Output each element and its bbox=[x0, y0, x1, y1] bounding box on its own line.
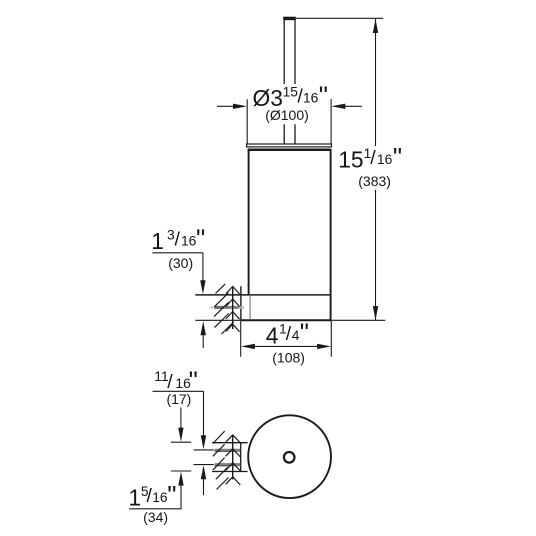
dim 30 leader bbox=[152, 252, 203, 254]
dim 15 1/16 top arrow (up) bbox=[373, 19, 378, 33]
wall hatch long diagonals (bottom view) bbox=[213, 431, 229, 489]
svg-text:": " bbox=[319, 80, 328, 110]
dim Ø100 left arrow bbox=[217, 105, 240, 107]
svg-text:": " bbox=[393, 142, 402, 172]
top extension line for height dim bbox=[296, 17, 383, 19]
screw (side view, gray) bbox=[211, 307, 213, 309]
svg-text:4: 4 bbox=[266, 322, 279, 348]
wall plate left edge (side view) bbox=[240, 286, 242, 320]
body right edge + plate right edge bbox=[330, 149, 332, 320]
wall hatch chevrons (bottom view) bbox=[226, 435, 241, 485]
svg-text:15: 15 bbox=[283, 84, 299, 99]
svg-text:/: / bbox=[370, 147, 376, 169]
svg-text:1: 1 bbox=[128, 485, 141, 511]
center hole circle bbox=[284, 452, 295, 463]
dim 17 leader bbox=[153, 390, 204, 392]
label (Ø100) bbox=[262, 107, 312, 125]
svg-text:(34): (34) bbox=[143, 509, 168, 525]
wall hatch chevrons (side view) bbox=[226, 286, 240, 331]
dim 15 1/16 bottom arrow (down) bbox=[373, 306, 378, 320]
dim 17 extension lines bbox=[194, 449, 214, 451]
dim 30 upper arrow (down) bbox=[200, 280, 205, 294]
holder circle (bottom view) bbox=[248, 415, 331, 498]
svg-text:/: / bbox=[175, 229, 181, 251]
plate left edge (bottom view) bbox=[240, 443, 242, 472]
wall line (bottom view) bbox=[232, 435, 234, 480]
brush handle rod bbox=[283, 20, 285, 145]
wall hatch long diagonals (side view) bbox=[214, 284, 234, 334]
body bottom / plate top line (extends left as extension line) bbox=[195, 294, 331, 296]
dim 108 extension lines bbox=[240, 321, 242, 357]
body top thick line bbox=[248, 148, 332, 151]
svg-text:16: 16 bbox=[152, 490, 168, 505]
svg-text:(Ø100): (Ø100) bbox=[265, 107, 309, 123]
dim 34 leader underline bbox=[129, 508, 181, 510]
svg-text:4: 4 bbox=[292, 328, 300, 343]
svg-text:(108): (108) bbox=[272, 350, 305, 366]
screw 1 (bottom view, gray) bbox=[215, 449, 241, 452]
dim 34 upper arrow (down) bbox=[180, 408, 182, 435]
svg-text:": " bbox=[300, 318, 309, 348]
dim 34 lower arrow (up) bbox=[178, 472, 183, 486]
label dim 15 1/16" bbox=[336, 146, 404, 171]
svg-text:16: 16 bbox=[377, 152, 393, 167]
svg-text:": " bbox=[167, 480, 176, 510]
svg-text:(30): (30) bbox=[168, 255, 193, 271]
dim Ø100 right arrow bbox=[338, 105, 362, 107]
label (383) bbox=[354, 171, 396, 190]
dim 15 1/16 vertical line bbox=[375, 19, 377, 320]
svg-text:1: 1 bbox=[151, 228, 164, 254]
plate top line (bottom view) bbox=[212, 442, 248, 444]
dim 30 lower arrow (up) bbox=[201, 321, 206, 335]
svg-text:": " bbox=[196, 223, 205, 253]
label dim Ø3 15/16" bbox=[128, 80, 404, 524]
handle cap bbox=[283, 17, 296, 21]
dim 17 lower arrow (up) bbox=[201, 465, 206, 479]
plate inner gray line (side view) bbox=[249, 296, 251, 320]
dim 17 upper arrow (down) bbox=[201, 435, 206, 449]
lid flange bbox=[247, 144, 332, 147]
plate bottom line (bottom view) bbox=[212, 471, 248, 473]
plate bottom line + extension line both sides bbox=[195, 319, 385, 321]
svg-text:16: 16 bbox=[181, 234, 197, 249]
svg-text:(17): (17) bbox=[166, 391, 191, 407]
svg-text:15: 15 bbox=[338, 147, 363, 173]
svg-text:16: 16 bbox=[303, 91, 319, 106]
dim 108 line with arrows bbox=[248, 345, 324, 347]
screw 2 (bottom view, gray) bbox=[215, 463, 241, 466]
dim 34 extension lines bbox=[171, 441, 191, 443]
body left edge bbox=[248, 149, 250, 295]
dim Ø100 extension lines bbox=[246, 99, 248, 144]
wall line (side view) bbox=[232, 286, 234, 329]
svg-text:(383): (383) bbox=[358, 173, 391, 189]
svg-text:/: / bbox=[167, 371, 173, 393]
